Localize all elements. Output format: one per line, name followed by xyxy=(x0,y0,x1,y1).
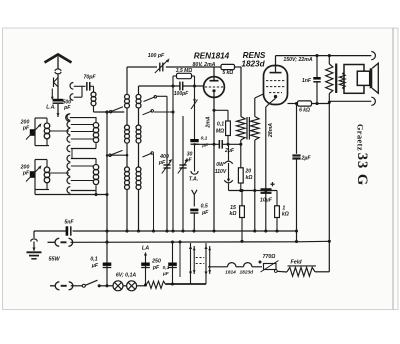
svg-text:L.A.: L.A. xyxy=(46,105,55,111)
capacitor 500pF xyxy=(53,99,64,102)
coil chain A bottom xyxy=(125,167,130,172)
wire 2uF output branch xyxy=(296,104,298,154)
wire cathode tap 0.1M xyxy=(214,109,228,111)
capacitor 0.1uF b xyxy=(168,263,177,266)
resistor Feld field coil xyxy=(287,267,315,276)
svg-text:6V; 0,1A: 6V; 0,1A xyxy=(116,272,137,278)
svg-text:pF: pF xyxy=(63,105,71,111)
wire contact c3 to v153 xyxy=(153,154,155,231)
transformer output primary xyxy=(328,56,330,64)
wire 250pF branch xyxy=(145,253,147,286)
wire chainB mid1 xyxy=(138,108,140,125)
wire cathode to 2uF xyxy=(195,143,220,145)
svg-text:pF: pF xyxy=(22,171,30,177)
tube RENS1823d xyxy=(264,66,288,105)
wire grid top chainB xyxy=(138,86,140,94)
resistor 6k xyxy=(298,101,312,106)
svg-text:1823d: 1823d xyxy=(241,59,265,68)
tube REN1814 xyxy=(204,77,225,98)
heater REN1814 xyxy=(228,263,236,267)
svg-text:400: 400 xyxy=(159,154,169,160)
wire heater drop left xyxy=(106,112,108,286)
loop block2 xyxy=(34,160,36,195)
coil chain B mid xyxy=(136,125,141,130)
svg-text:kΩ: kΩ xyxy=(230,211,237,217)
svg-text:250: 250 xyxy=(151,258,161,264)
switch K antenna xyxy=(53,78,55,88)
switch on grid leak xyxy=(191,100,198,110)
grid1 RENS xyxy=(266,80,285,82)
svg-text:2µF: 2µF xyxy=(300,156,311,162)
wire 15k to mains line xyxy=(241,218,243,242)
switch arrow row1 left xyxy=(111,107,123,112)
capacitor 2uF output xyxy=(292,154,300,156)
svg-text:70pF: 70pF xyxy=(83,75,96,81)
svg-text:100 pF: 100 pF xyxy=(148,53,165,59)
contact TA jack xyxy=(191,171,198,174)
svg-text:770Ω: 770Ω xyxy=(263,254,276,260)
resistor 15k xyxy=(241,191,243,206)
coil block2 xyxy=(46,160,48,168)
lamp scale 2 xyxy=(127,281,137,291)
capacitor 0.1uF a xyxy=(103,263,112,266)
capacitor 70pF xyxy=(86,82,88,91)
switch mains xyxy=(71,285,82,287)
switch arrow row2 left xyxy=(107,154,127,156)
svg-text:MΩ: MΩ xyxy=(216,128,224,134)
wire 3.5M left lead xyxy=(173,75,177,77)
capacitor 2uF coupling xyxy=(218,140,220,149)
coil bank 1 taps xyxy=(71,124,94,126)
capacitor 100pF grid xyxy=(179,82,181,91)
wire 0.1M to node xyxy=(227,136,229,145)
coil antenna coupling xyxy=(91,92,96,97)
grid2 RENS xyxy=(266,86,285,88)
wire 2uF to bus corner xyxy=(296,159,298,242)
wire secondary to RENS grid xyxy=(254,98,256,117)
antenna plug connector xyxy=(55,69,61,71)
wire grid line xyxy=(139,85,180,87)
wire ground drop xyxy=(33,231,35,238)
svg-text:Feld: Feld xyxy=(290,260,302,266)
svg-text:15: 15 xyxy=(230,205,236,211)
transformer interstage core xyxy=(246,117,248,140)
wire lamps to resistor xyxy=(137,285,146,287)
svg-text:5nF: 5nF xyxy=(64,219,74,225)
svg-text:1823d: 1823d xyxy=(239,269,254,275)
wire block2 bottom xyxy=(35,194,107,196)
switch arrow top right xyxy=(144,97,156,102)
bus junction dots xyxy=(105,229,108,232)
wire plate to primary xyxy=(240,67,242,117)
contact antenna jack xyxy=(66,114,70,121)
coil bank 2 frame xyxy=(71,158,96,160)
grid3 RENS xyxy=(269,92,282,94)
wire plate top chainA xyxy=(126,67,128,94)
trimmer capacitor 200pF lower xyxy=(30,171,35,178)
svg-text:0,1: 0,1 xyxy=(90,256,97,262)
wire 0.5uF to bus xyxy=(193,213,195,231)
svg-text:0W: 0W xyxy=(216,162,225,168)
loop block1 xyxy=(34,118,36,146)
label plus 10uF xyxy=(270,183,274,185)
svg-text:100pF: 100pF xyxy=(174,91,189,97)
wire antenna stem xyxy=(57,74,59,99)
svg-text:0,1: 0,1 xyxy=(163,265,170,271)
wire heater to 770 xyxy=(252,266,262,268)
cathode REN xyxy=(212,89,215,92)
lamp scale 1 xyxy=(113,281,123,291)
wire chainA mid1 xyxy=(126,108,128,125)
resistor dropper xyxy=(146,281,166,288)
wire antenna to contact xyxy=(57,104,59,117)
svg-text:33 G: 33 G xyxy=(354,153,370,186)
wire barretter left drop xyxy=(179,242,181,277)
contact pair 70pF input xyxy=(70,83,73,90)
barretter 2 xyxy=(205,243,207,277)
contact ground xyxy=(31,239,38,242)
coil bank 2 taps xyxy=(71,165,94,167)
svg-text:µF: µF xyxy=(162,271,170,277)
wire mains line xyxy=(71,241,297,244)
svg-text:pF: pF xyxy=(22,126,30,132)
transformer interstage secondary xyxy=(251,117,260,141)
transformer interstage primary xyxy=(237,117,246,141)
barretter 1 xyxy=(190,243,192,277)
pickup prongs TA xyxy=(192,190,195,195)
trimmer capacitor 400pF b xyxy=(179,164,186,166)
wire divider node xyxy=(229,190,278,192)
wire 0.1uF b branch xyxy=(172,242,174,284)
svg-text:µF: µF xyxy=(201,210,209,216)
anode RENS xyxy=(270,72,282,74)
wire 770 to Feld xyxy=(277,270,287,273)
wire bus xyxy=(34,230,66,232)
capacitor 5nF xyxy=(66,226,69,235)
coil chain A top xyxy=(125,94,130,99)
svg-text:80V, 2mA: 80V, 2mA xyxy=(193,62,216,68)
wire 10uF to bus xyxy=(265,193,267,231)
wire chainB mid2 xyxy=(138,143,140,167)
resistor 770 adjustable xyxy=(259,261,262,264)
trimmer capacitor 400pF a xyxy=(163,164,170,166)
capacitor 0.1uF gridleak xyxy=(190,139,198,142)
svg-text:2mA: 2mA xyxy=(205,116,211,128)
wire screen line xyxy=(288,103,298,105)
antenna xyxy=(45,55,72,63)
svg-text:28mA: 28mA xyxy=(268,123,274,138)
wire gridleak to TA jack xyxy=(194,144,196,171)
speaker horn xyxy=(357,71,369,85)
svg-text:150V; 22mA: 150V; 22mA xyxy=(283,57,312,63)
svg-text:110V: 110V xyxy=(215,169,227,175)
transformer output secondary xyxy=(342,73,344,74)
trimmer capacitor 200pF upper xyxy=(30,129,35,136)
wire heater mid xyxy=(236,266,244,268)
svg-text:3,5 MΩ: 3,5 MΩ xyxy=(176,68,193,74)
transformer output core xyxy=(335,64,337,94)
switch arrow low right xyxy=(143,153,153,157)
wire primary bottom to 20k xyxy=(240,140,242,144)
wire chainA mid2 xyxy=(126,143,128,167)
svg-text:µF: µF xyxy=(201,142,209,148)
coil bank 2 winding xyxy=(93,165,98,170)
trimmer capacitor 100pF xyxy=(159,63,161,72)
svg-text:µF: µF xyxy=(91,263,99,269)
coil bank 1 winding xyxy=(93,123,98,128)
svg-text:1nF: 1nF xyxy=(302,78,312,84)
wire speaker bottom xyxy=(329,100,371,102)
link bank1 bank2 xyxy=(71,149,73,159)
svg-text:REN1814: REN1814 xyxy=(194,51,230,60)
wire heater line xyxy=(208,266,228,268)
svg-text:1814: 1814 xyxy=(225,269,236,275)
wire coil to node xyxy=(93,106,95,112)
wire 3.5M right lead xyxy=(192,75,195,77)
capacitor 250pF xyxy=(141,263,150,266)
svg-text:20: 20 xyxy=(244,168,251,174)
contact output bottom xyxy=(371,97,375,105)
indicator lamp 110V xyxy=(228,144,230,160)
wire between lamps xyxy=(123,285,127,287)
coil chain B bottom xyxy=(136,167,141,172)
mains plug upper xyxy=(48,241,56,243)
switch arrow mid right xyxy=(143,111,153,115)
wire plate line xyxy=(127,66,157,68)
svg-text:10µF: 10µF xyxy=(260,198,273,204)
wire v183 xyxy=(182,116,184,231)
coil bank 2 contacts xyxy=(67,155,70,162)
wire 2uF to primary xyxy=(222,143,241,145)
ground xyxy=(33,242,35,251)
wire chainB to bus xyxy=(138,190,140,232)
wire dropper to barretter xyxy=(166,283,206,285)
svg-text:0,5: 0,5 xyxy=(201,204,208,210)
svg-text:0,1: 0,1 xyxy=(201,136,208,142)
wire right drop xyxy=(328,101,330,271)
cathode RENS xyxy=(274,95,277,98)
svg-text:T.A.: T.A. xyxy=(189,177,199,183)
resistor 1k xyxy=(276,191,278,206)
resistor 0.1M xyxy=(226,121,231,136)
wire 1k to bus xyxy=(276,218,278,232)
capacitor 0.5uF xyxy=(190,209,198,212)
barretter links xyxy=(196,257,205,259)
svg-text:5 kΩ: 5 kΩ xyxy=(222,70,233,76)
wire secondary bottom xyxy=(254,140,256,231)
grid REN xyxy=(205,86,223,88)
capacitor 10uF electrolytic xyxy=(261,188,272,190)
svg-text:30: 30 xyxy=(187,151,193,157)
coil bank 1 contacts xyxy=(67,114,70,121)
contact output top xyxy=(371,52,375,60)
wire block2 to bank2 xyxy=(49,172,69,174)
wire jack to coil bank 1 xyxy=(70,117,96,119)
svg-text:2µF: 2µF xyxy=(224,148,235,154)
wire contact to 70pF cap xyxy=(74,85,86,87)
svg-text:pF: pF xyxy=(184,158,192,164)
svg-text:pF: pF xyxy=(152,265,160,271)
svg-text:1: 1 xyxy=(282,205,285,211)
svg-text:Graetz: Graetz xyxy=(356,124,365,151)
svg-text:6 kΩ: 6 kΩ xyxy=(299,108,310,114)
wire block1 to bank1 xyxy=(49,130,69,132)
wire 70pF to coil xyxy=(90,85,94,87)
coil block1 xyxy=(46,118,48,123)
svg-text:0,1: 0,1 xyxy=(217,121,224,127)
wire 150V line xyxy=(276,55,372,57)
wire bank2 down xyxy=(95,191,97,195)
capacitor 1nF xyxy=(316,56,318,77)
coil chain B top xyxy=(136,94,141,99)
wire 20k to node xyxy=(240,183,242,191)
coil chain A mid xyxy=(125,125,130,130)
mains plug lower xyxy=(50,285,55,287)
speaker box xyxy=(344,65,364,94)
resistor 5k xyxy=(221,64,235,69)
junction node xyxy=(105,110,108,113)
wire contact c2 to v173 xyxy=(154,111,173,113)
wire Feld to right drop xyxy=(315,271,329,273)
wire chainA to bus xyxy=(126,190,128,232)
heater RENS1823d xyxy=(244,263,252,267)
svg-text:LA: LA xyxy=(142,245,149,251)
wire contact c1 to v167 xyxy=(157,95,167,97)
anode REN xyxy=(210,80,219,82)
svg-text:55W: 55W xyxy=(48,257,60,263)
resistor 3.5M xyxy=(177,73,192,78)
svg-text:kΩ: kΩ xyxy=(282,212,289,218)
coil bank 1 frame xyxy=(71,148,96,150)
svg-text:kΩ: kΩ xyxy=(246,175,253,181)
resistor 20k xyxy=(238,168,243,183)
